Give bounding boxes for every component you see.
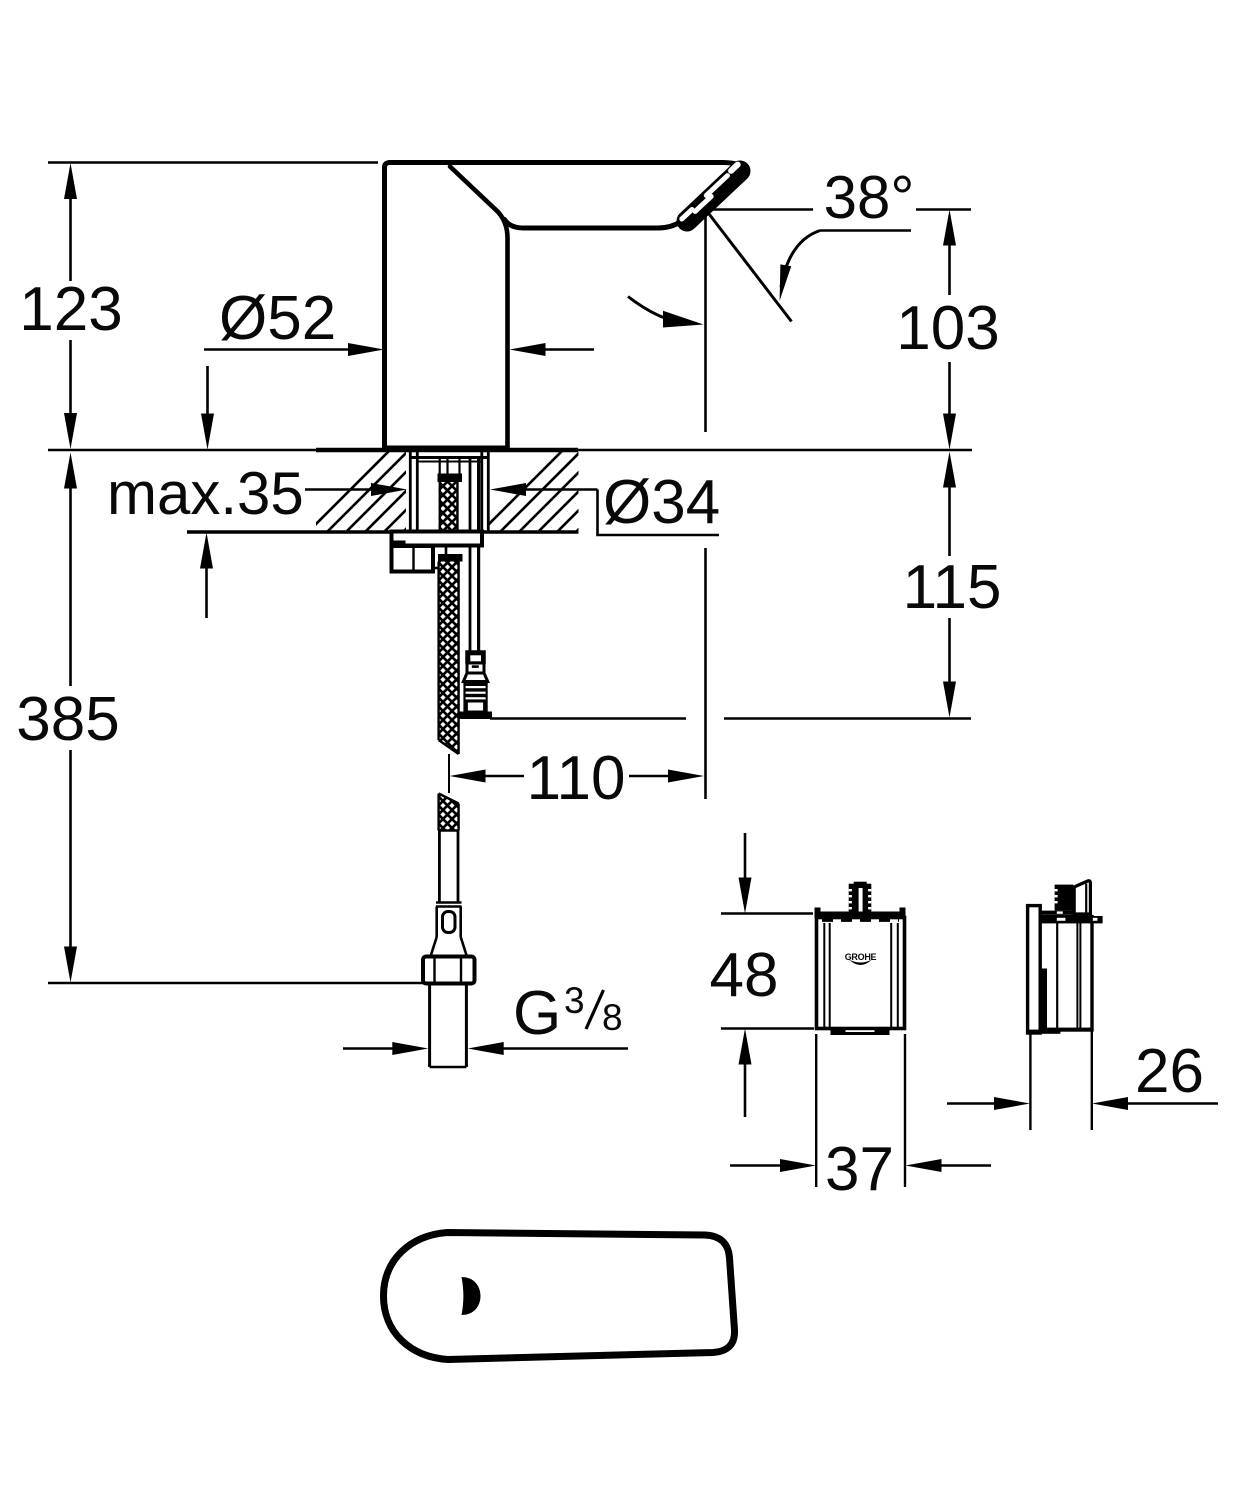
- control box front view: [815, 882, 906, 1035]
- svg-text:123: 123: [19, 275, 122, 344]
- shank outer wall right: [487, 450, 490, 531]
- svg-text:GROHE: GROHE: [845, 952, 877, 962]
- 38 deg stream diagonal: [706, 210, 792, 322]
- dimension max.35 vertical: [200, 366, 214, 618]
- diameter 34 label underline: [596, 534, 719, 537]
- shank outer wall left: [409, 450, 412, 531]
- hose break centerline: [448, 754, 450, 793]
- faucet spout underside: [505, 220, 682, 229]
- hose crimp band lower: [438, 554, 463, 562]
- vertical reference line from spout tip: [704, 210, 707, 433]
- dimension diameter 52: [204, 284, 594, 356]
- control box side view: [1028, 881, 1103, 1034]
- svg-text:38°: 38°: [824, 164, 915, 231]
- connection nut G3/8: [423, 957, 475, 984]
- box body side: [1040, 917, 1092, 1030]
- extension lines for 48: [721, 912, 813, 915]
- smooth hose tube: [439, 831, 458, 903]
- clip bar in plate: [1040, 969, 1047, 1029]
- countertop deck line: [48, 449, 316, 452]
- faucet base bottom edge: [383, 446, 509, 450]
- spout aerator bar: [687, 165, 740, 221]
- shank inner wall right: [480, 450, 483, 531]
- vertical reference line below deck: [704, 548, 707, 799]
- GROHE logo: [845, 952, 877, 965]
- mounting nut: [392, 546, 447, 572]
- svg-text:385: 385: [16, 685, 119, 754]
- braided hose upper section: [439, 482, 459, 532]
- dimension 385: [16, 453, 119, 983]
- connection pipe: [430, 984, 467, 1068]
- 38 deg leader arc: [780, 231, 820, 301]
- svg-text:37: 37: [825, 1135, 894, 1204]
- threaded nipple side: [1055, 885, 1074, 911]
- deck hatching left block: [300, 448, 487, 540]
- dimension 103: [896, 210, 999, 450]
- extension line bottom of 385: [48, 982, 423, 985]
- dimension 115: [903, 452, 1002, 718]
- spout aerator inner slot: [682, 196, 711, 219]
- braided hose lower section: [439, 794, 459, 831]
- box top flange: [815, 908, 906, 921]
- svg-text:G: G: [513, 979, 561, 1048]
- shank group below deck: [392, 450, 493, 1067]
- max.35 leader arrow: [305, 483, 407, 496]
- box body front: [817, 918, 905, 1029]
- dimension 37: [730, 1034, 991, 1204]
- svg-text:Ø52: Ø52: [219, 284, 336, 353]
- dimension G 3/8: [343, 1042, 628, 1055]
- svg-text:26: 26: [1135, 1037, 1204, 1106]
- svg-text:115: 115: [903, 553, 1002, 622]
- svg-text:103: 103: [896, 294, 999, 363]
- svg-text:max.35: max.35: [107, 460, 304, 527]
- dimension 110: [450, 744, 705, 813]
- diameter 34 leader arrow: [490, 483, 598, 535]
- faucet inner slope and pedestal right edge: [450, 167, 508, 450]
- sensor cover top view: [384, 1233, 735, 1360]
- horizontal reference line at spout tip: [707, 208, 813, 211]
- hose crimp cap: [438, 474, 463, 483]
- faucet outer outline: [385, 163, 746, 450]
- 38 deg leader line: [820, 229, 911, 232]
- label G 3/8: [513, 979, 623, 1048]
- braided hose main section: [439, 562, 459, 755]
- mounting plate: [1028, 906, 1041, 1033]
- svg-text:Ø34: Ø34: [603, 468, 720, 537]
- swivel arc arrow: [628, 297, 704, 328]
- threaded nipple front: [849, 882, 872, 914]
- side top flange: [1041, 911, 1103, 924]
- dimension 123: [19, 163, 122, 449]
- mounting washer: [392, 532, 483, 547]
- extension line at hose connector level: [490, 717, 686, 720]
- box bottom bar: [831, 1029, 890, 1036]
- shank inner wall left: [416, 450, 419, 531]
- hose end connector: [431, 903, 467, 957]
- sensor cable lines: [469, 457, 472, 652]
- inner pipe lines: [439, 457, 441, 474]
- extension line top of faucet: [48, 161, 378, 164]
- mounting bracket flag: [1074, 881, 1090, 914]
- dimension 48: [710, 833, 779, 1117]
- svg-text:8: 8: [602, 997, 623, 1038]
- svg-text:110: 110: [527, 744, 626, 813]
- svg-text:48: 48: [710, 941, 779, 1010]
- svg-text:3: 3: [564, 980, 585, 1021]
- sensor cable plug connector: [459, 652, 492, 720]
- dimension 26: [947, 1031, 1218, 1130]
- box side bottom: [1028, 1028, 1092, 1034]
- sensor window: [462, 1277, 481, 1315]
- shank top seam lines: [410, 456, 489, 459]
- deck bottom line: [187, 530, 579, 533]
- deck hatching right block: [473, 448, 660, 540]
